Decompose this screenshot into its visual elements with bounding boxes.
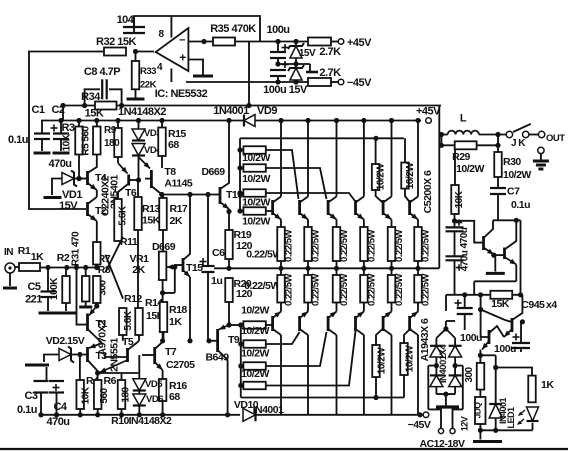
capacitor 104 feedback	[123, 26, 145, 28]
dot 100u top	[275, 39, 280, 44]
wire base route Q4 upper	[266, 193, 355, 201]
ground op-amp	[193, 75, 213, 78]
svg-text:15K: 15K	[491, 298, 510, 310]
svg-text:OUT: OUT	[546, 133, 565, 144]
transistor Q4 C5200 upper	[363, 121, 365, 197]
resistor R32 15K	[104, 48, 126, 56]
pot VR1 2K	[159, 252, 167, 281]
capacitor C4 470u	[53, 387, 60, 389]
svg-text:0.22/5W: 0.22/5W	[421, 230, 432, 262]
capacitor 100u left	[464, 295, 466, 308]
resistor 10/2W bank lower 3	[243, 362, 265, 370]
svg-text:C945 x4: C945 x4	[521, 299, 557, 311]
wire base route Q1 lower	[266, 324, 273, 326]
svg-text:T9: T9	[228, 334, 240, 346]
svg-text:T5: T5	[122, 336, 134, 348]
svg-text:0.22/5W: 0.22/5W	[339, 274, 350, 306]
resistor 0.22/5W lower 5	[388, 275, 396, 303]
svg-text:C2705: C2705	[166, 359, 195, 371]
diode VD3	[138, 121, 140, 130]
svg-text:0.22/5W: 0.22/5W	[366, 274, 377, 306]
transistor T7 C2705	[153, 347, 156, 364]
svg-text:470u: 470u	[48, 158, 71, 170]
svg-text:0.22/5W: 0.22/5W	[421, 274, 432, 306]
transistor T2 C2240	[86, 202, 89, 216]
svg-text:10/2W: 10/2W	[503, 169, 531, 181]
dot bridge mid	[434, 363, 439, 368]
svg-text:+: +	[179, 51, 186, 65]
svg-text:10/2W: 10/2W	[241, 305, 269, 317]
svg-text:0.22/5W: 0.22/5W	[284, 274, 295, 306]
resistor 180 lower	[118, 380, 126, 409]
transistor Q3 A1943 lower	[336, 335, 338, 415]
resistor 10/2W bank upper 3	[243, 189, 265, 197]
svg-text:68: 68	[169, 391, 180, 403]
resistor R33 22K	[135, 52, 137, 62]
resistor 0.22/5W lower 2	[304, 275, 312, 303]
svg-text:IC: NE5532: IC: NE5532	[155, 88, 208, 100]
terminal -45V rail	[417, 412, 422, 417]
transistor Q1 C5200 upper	[280, 121, 282, 197]
svg-text:560: 560	[99, 387, 110, 403]
resistor 0.22/5W upper 4	[360, 227, 368, 261]
svg-text:10K: 10K	[454, 190, 465, 208]
resistor R4 10K	[79, 355, 81, 381]
transistor relay Q2 C945	[488, 330, 491, 344]
dot top rail output junctions	[278, 118, 283, 123]
svg-text:A1943X 6: A1943X 6	[419, 318, 431, 361]
resistor 0.22/5W upper 3	[333, 227, 341, 261]
transistor Q6 C5200 upper	[417, 121, 419, 197]
svg-text:0.22/5W: 0.22/5W	[244, 280, 280, 292]
wire servo sense line	[63, 105, 441, 107]
capacitor 470u right upper	[452, 218, 457, 223]
svg-text:100K: 100K	[49, 277, 60, 300]
resistor 1K	[496, 368, 532, 376]
diode VD10	[243, 408, 256, 421]
resistor R2 100K	[65, 268, 67, 277]
svg-text:0.22/5W: 0.22/5W	[311, 230, 322, 262]
svg-text:D669: D669	[201, 166, 225, 178]
svg-text:C2: C2	[51, 104, 64, 116]
resistor 10/2W bank upper 4	[243, 207, 265, 215]
resistor R29 10/2W	[439, 132, 444, 137]
zener VD lower 15V	[290, 68, 302, 80]
svg-text:T2: T2	[95, 205, 107, 217]
dot servo left	[60, 103, 65, 108]
svg-text:−45V: −45V	[408, 419, 431, 431]
svg-text:R9: R9	[104, 125, 117, 136]
dot bridge bottom	[443, 392, 448, 397]
border bottom	[0, 448, 568, 450]
terminal OUT	[538, 131, 544, 137]
svg-text:C8 4.7P: C8 4.7P	[84, 66, 120, 78]
terminal +45V supply	[331, 41, 338, 43]
resistor R5 560	[96, 121, 98, 127]
svg-text:VD2.15V: VD2.15V	[46, 335, 85, 347]
svg-text:C7: C7	[507, 186, 520, 198]
svg-text:15K: 15K	[85, 108, 104, 120]
svg-text:100u: 100u	[266, 24, 289, 36]
svg-text:−: −	[179, 35, 185, 47]
svg-text:R11: R11	[120, 236, 138, 248]
capacitor 470u right lower	[446, 255, 464, 257]
wire base route Q1 upper	[266, 210, 273, 212]
svg-text:15V: 15V	[59, 200, 78, 212]
wire noninverting input to ground	[188, 60, 203, 76]
terminal -45V supply	[331, 81, 338, 83]
resistor R19 120	[225, 230, 233, 259]
dot bottom rail junctions	[38, 412, 43, 417]
svg-text:T3: T3	[96, 350, 108, 362]
resistor 0.22/5W lower 3	[333, 275, 341, 303]
svg-text:2K: 2K	[132, 264, 145, 276]
resistor R30 10/2W	[497, 145, 499, 152]
diode bridge lower right	[449, 375, 462, 386]
transistor T4 C2240	[86, 171, 89, 185]
svg-text:−45V: −45V	[347, 77, 372, 89]
svg-text:C5: C5	[27, 281, 40, 293]
transistor Q5 C5200 upper	[391, 121, 393, 197]
resistor 0.22/5W upper 5	[388, 227, 396, 261]
svg-text:0.1u: 0.1u	[8, 134, 28, 146]
svg-text:470u: 470u	[459, 227, 470, 248]
resistor 10K right	[454, 149, 456, 186]
transistor T9 B649	[216, 329, 219, 352]
svg-text:10/2W: 10/2W	[241, 368, 269, 380]
svg-text:15V: 15V	[299, 48, 316, 59]
resistor R6 560	[97, 373, 99, 380]
ground R33	[127, 98, 145, 101]
svg-text:0.22/5W: 0.22/5W	[311, 274, 322, 306]
dot op-amp out	[133, 49, 138, 54]
diode IN4001 relay	[495, 355, 497, 404]
ground output	[533, 160, 549, 163]
input jack IN	[5, 263, 15, 273]
resistor R15 68	[161, 121, 163, 128]
svg-text:C1: C1	[31, 104, 44, 116]
svg-text:300: 300	[464, 366, 475, 382]
resistor R34 15K	[95, 102, 117, 110]
resistor 0.22/5W lower 1	[277, 275, 285, 303]
wire left feedback border	[29, 52, 96, 210]
svg-text:T15: T15	[186, 262, 203, 274]
svg-text:R18: R18	[169, 304, 187, 316]
svg-text:470u: 470u	[46, 416, 69, 428]
wire bridge top	[443, 326, 448, 331]
svg-text:10/2W: 10/2W	[405, 345, 416, 372]
svg-text:100u: 100u	[494, 343, 516, 355]
wire servo corner	[440, 105, 442, 107]
wire mid node	[278, 63, 310, 65]
svg-text:10/2W: 10/2W	[242, 216, 270, 228]
svg-text:L: L	[460, 113, 467, 125]
svg-text:B649: B649	[205, 352, 229, 364]
resistor 0.22/5W lower 4	[360, 275, 368, 303]
svg-text:180: 180	[104, 138, 120, 149]
transistor protection Q upper	[482, 236, 485, 250]
diode VD6	[133, 394, 146, 406]
wire relay drive node	[479, 350, 481, 362]
svg-text:10/2W: 10/2W	[456, 163, 484, 175]
resistor 0.22/5W upper 1	[277, 227, 285, 261]
svg-text:R32 15K: R32 15K	[96, 36, 136, 48]
wire AC terminals	[428, 409, 441, 428]
svg-text:10/2W: 10/2W	[377, 347, 388, 374]
svg-text:IN4001X4: IN4001X4	[438, 344, 449, 383]
resistor R3 10K	[78, 121, 80, 127]
svg-text:10/2W: 10/2W	[241, 348, 269, 360]
wire driver base line low	[142, 354, 155, 356]
svg-text:2.7K: 2.7K	[319, 46, 341, 58]
svg-text:C4: C4	[53, 401, 67, 413]
svg-text:10K: 10K	[62, 133, 73, 151]
wire protection bottom	[474, 280, 516, 282]
wire inverting input	[188, 41, 213, 43]
svg-text:C5200X 6: C5200X 6	[422, 170, 434, 213]
resistor 300 relay	[477, 363, 485, 390]
resistor 2.7K lower	[308, 78, 331, 86]
resistor R20 120	[225, 278, 233, 302]
svg-text:R35 470K: R35 470K	[210, 23, 256, 35]
ground protection	[494, 255, 496, 271]
svg-text:10/2W: 10/2W	[376, 163, 387, 190]
transistor Q6 A1943 lower	[417, 335, 419, 415]
svg-text:VD6: VD6	[146, 394, 163, 405]
dot bus junctions	[58, 118, 63, 123]
transistor T8 A1145	[150, 170, 153, 188]
wire bank inner line lower	[241, 397, 404, 399]
capacitor C1 0.1u	[41, 121, 43, 134]
dot servo R35 junction	[246, 103, 251, 108]
wire driver bias line	[162, 194, 215, 196]
zener VD upper 15V	[290, 46, 302, 58]
diode LED1	[527, 407, 539, 421]
relay JDQ	[475, 397, 486, 424]
resistor 10/2W vertical lower 6	[404, 328, 411, 343]
transistor Q1 A1943 lower	[280, 335, 282, 415]
capacitor 100u lower	[282, 64, 289, 66]
capacitor C6 1u	[200, 261, 207, 263]
wire R35 right	[235, 41, 260, 43]
transistor Q4 A1943 lower	[363, 335, 365, 415]
svg-text:1N4148X2: 1N4148X2	[118, 106, 166, 118]
wire 15K line	[446, 294, 522, 296]
capacitor C5 221	[47, 268, 49, 292]
wire feedback top	[134, 16, 260, 42]
svg-text:2K: 2K	[170, 215, 183, 227]
svg-text:0.1u: 0.1u	[511, 199, 530, 211]
wire +45 feed	[260, 41, 308, 43]
resistor 10/2W bank lower 1	[243, 321, 265, 329]
svg-text:D669: D669	[152, 241, 176, 253]
svg-text:R31 470: R31 470	[71, 231, 82, 266]
wire bank vertical upper	[239, 138, 241, 211]
svg-text:1u: 1u	[211, 275, 222, 287]
transistor relay Q1 C945	[480, 295, 482, 310]
capacitor C2 470u	[60, 121, 62, 134]
resistor 10/2W bank upper 2	[243, 164, 265, 172]
svg-text:IN4148X2: IN4148X2	[129, 415, 172, 427]
resistor 10/2W bank lower 4	[243, 382, 265, 390]
svg-text:R1: R1	[18, 245, 31, 257]
diode bridge upper right	[449, 346, 462, 357]
wire base route Q3 lower	[266, 332, 327, 366]
diode VD5	[98, 372, 140, 374]
capacitor bridge filter	[445, 394, 447, 405]
zener VD1 15V	[62, 173, 74, 185]
resistor R14 15K	[135, 308, 143, 335]
svg-text:0.22/5W: 0.22/5W	[394, 230, 405, 262]
wire mid output bus	[214, 267, 439, 269]
svg-text:R13: R13	[142, 203, 160, 215]
transistor Q3 C5200 upper	[336, 121, 338, 197]
wire op-amp output	[134, 51, 154, 53]
resistor R9 180	[117, 121, 119, 129]
svg-text:22K: 22K	[140, 80, 157, 91]
svg-text:15K: 15K	[142, 215, 161, 227]
diode VD9	[244, 115, 255, 127]
svg-text:10K: 10K	[81, 386, 92, 404]
wire output riser	[438, 106, 440, 269]
resistor R11 5.6K	[114, 199, 122, 241]
resistor 0.22/5W lower 6	[414, 275, 422, 303]
resistor R1 1K	[15, 266, 19, 268]
svg-text:100u 15V: 100u 15V	[263, 84, 308, 96]
resistor R12 5.6K	[119, 308, 127, 335]
wire cross couple X	[105, 255, 123, 299]
wire bank vertical lower	[240, 325, 242, 398]
wire base route Q3 upper	[266, 168, 327, 199]
wire protection top	[493, 219, 521, 221]
resistor R13 15K	[137, 180, 139, 197]
svg-text:5.6K: 5.6K	[118, 205, 129, 225]
svg-text:JDQ: JDQ	[473, 402, 483, 419]
resistor R35 470K	[213, 38, 235, 46]
wire base route Q2 upper	[266, 150, 299, 199]
resistor 15K relay	[490, 291, 512, 299]
transistor T1 A970	[86, 314, 89, 332]
wire input node	[40, 267, 97, 269]
svg-text:IN4001: IN4001	[253, 404, 285, 416]
capacitor C3 0.1u	[34, 380, 49, 382]
svg-text:R3: R3	[61, 122, 74, 134]
svg-text:1K: 1K	[31, 251, 44, 263]
capacitor C7 0.1u	[497, 177, 499, 188]
resistor 0.22/5W upper 6	[414, 227, 422, 261]
svg-text:10/2W: 10/2W	[242, 152, 270, 164]
terminal output ground	[538, 147, 544, 153]
svg-text:0.1u: 0.1u	[17, 404, 37, 416]
svg-text:C6: C6	[212, 247, 225, 259]
svg-text:R5 560: R5 560	[81, 125, 92, 155]
op-amp U1 NE5532	[156, 28, 189, 71]
diode VD4	[132, 144, 145, 156]
svg-text:+45V: +45V	[416, 106, 441, 118]
resistor 10/2W bank lower 2	[243, 340, 265, 348]
svg-text:LED1: LED1	[506, 407, 516, 429]
resistor 10/2W bank upper 1	[243, 146, 265, 154]
svg-text:A1145: A1145	[164, 178, 193, 190]
diode bridge upper left	[430, 346, 443, 357]
svg-text:100u: 100u	[460, 332, 482, 344]
wire base route Q2 lower	[266, 332, 300, 344]
terminal +45V rail	[426, 118, 432, 124]
wire main positive bus	[41, 120, 244, 122]
switch JK	[506, 131, 512, 137]
svg-text:1K: 1K	[541, 379, 554, 391]
wire base route Q4 lower	[266, 331, 356, 386]
svg-text:T7: T7	[165, 346, 177, 358]
svg-text:J K: J K	[511, 138, 526, 149]
svg-text:R6: R6	[104, 375, 117, 387]
transistor protection Q lower	[503, 248, 506, 260]
resistor 10/2W vertical upper 6	[404, 138, 406, 162]
wire op-amp power pins	[170, 16, 172, 38]
transistor T3 A970	[86, 347, 89, 362]
wire bridge sides	[428, 365, 436, 367]
resistor R17 2K	[159, 198, 167, 230]
svg-text:221: 221	[25, 294, 42, 306]
svg-text:0.22/5W: 0.22/5W	[394, 274, 405, 306]
svg-text:10/2W: 10/2W	[242, 173, 270, 185]
svg-text:IN: IN	[4, 247, 13, 258]
svg-text:68: 68	[168, 139, 179, 151]
wire bank inner line upper	[240, 137, 404, 139]
wire protection riser	[520, 220, 522, 294]
svg-text:5.6K: 5.6K	[123, 310, 134, 330]
svg-text:R33: R33	[140, 66, 156, 77]
svg-text:VD5: VD5	[145, 379, 163, 390]
svg-text:10/2W: 10/2W	[405, 162, 416, 189]
wire -45 feed	[186, 81, 308, 83]
svg-text:VD9: VD9	[257, 105, 277, 117]
diode bridge lower left	[430, 375, 443, 386]
resistor R16 68	[159, 379, 167, 401]
svg-text:470u: 470u	[460, 250, 471, 271]
resistor 10/2W vertical upper 5	[375, 138, 377, 164]
svg-text:C3: C3	[24, 390, 37, 402]
svg-text:+45V: +45V	[347, 37, 372, 49]
transistor Q2 C5200 upper	[307, 121, 309, 197]
resistor 0.22/5W upper 2	[304, 227, 312, 261]
dot input nodes	[45, 265, 50, 270]
ground relay	[479, 430, 481, 439]
svg-text:104: 104	[117, 14, 135, 26]
resistor R18 1K	[160, 302, 168, 332]
svg-text:1K: 1K	[169, 316, 182, 328]
svg-text:180: 180	[121, 386, 132, 402]
transistor Q5 A1943 lower	[391, 335, 393, 415]
svg-text:T8: T8	[164, 166, 176, 178]
svg-text:10/2W: 10/2W	[242, 197, 270, 209]
svg-text:0.22/5W: 0.22/5W	[284, 230, 295, 262]
resistor 10/2W vertical lower 5	[376, 328, 384, 345]
svg-text:0.22/5W: 0.22/5W	[366, 230, 377, 262]
svg-text:10/2W: 10/2W	[241, 325, 269, 337]
resistor 2.7K upper	[308, 38, 331, 46]
svg-text:R2: R2	[57, 252, 70, 264]
svg-text:R30: R30	[503, 156, 521, 168]
svg-text:R17: R17	[170, 203, 188, 215]
wire relay bottom	[480, 429, 532, 431]
wire bottom rail	[41, 414, 240, 416]
svg-text:R12: R12	[124, 293, 142, 305]
svg-text:0.22/5W: 0.22/5W	[339, 230, 350, 262]
capacitor 100u right	[513, 336, 520, 338]
svg-text:R10: R10	[111, 415, 129, 427]
svg-text:12V: 12V	[460, 416, 470, 431]
